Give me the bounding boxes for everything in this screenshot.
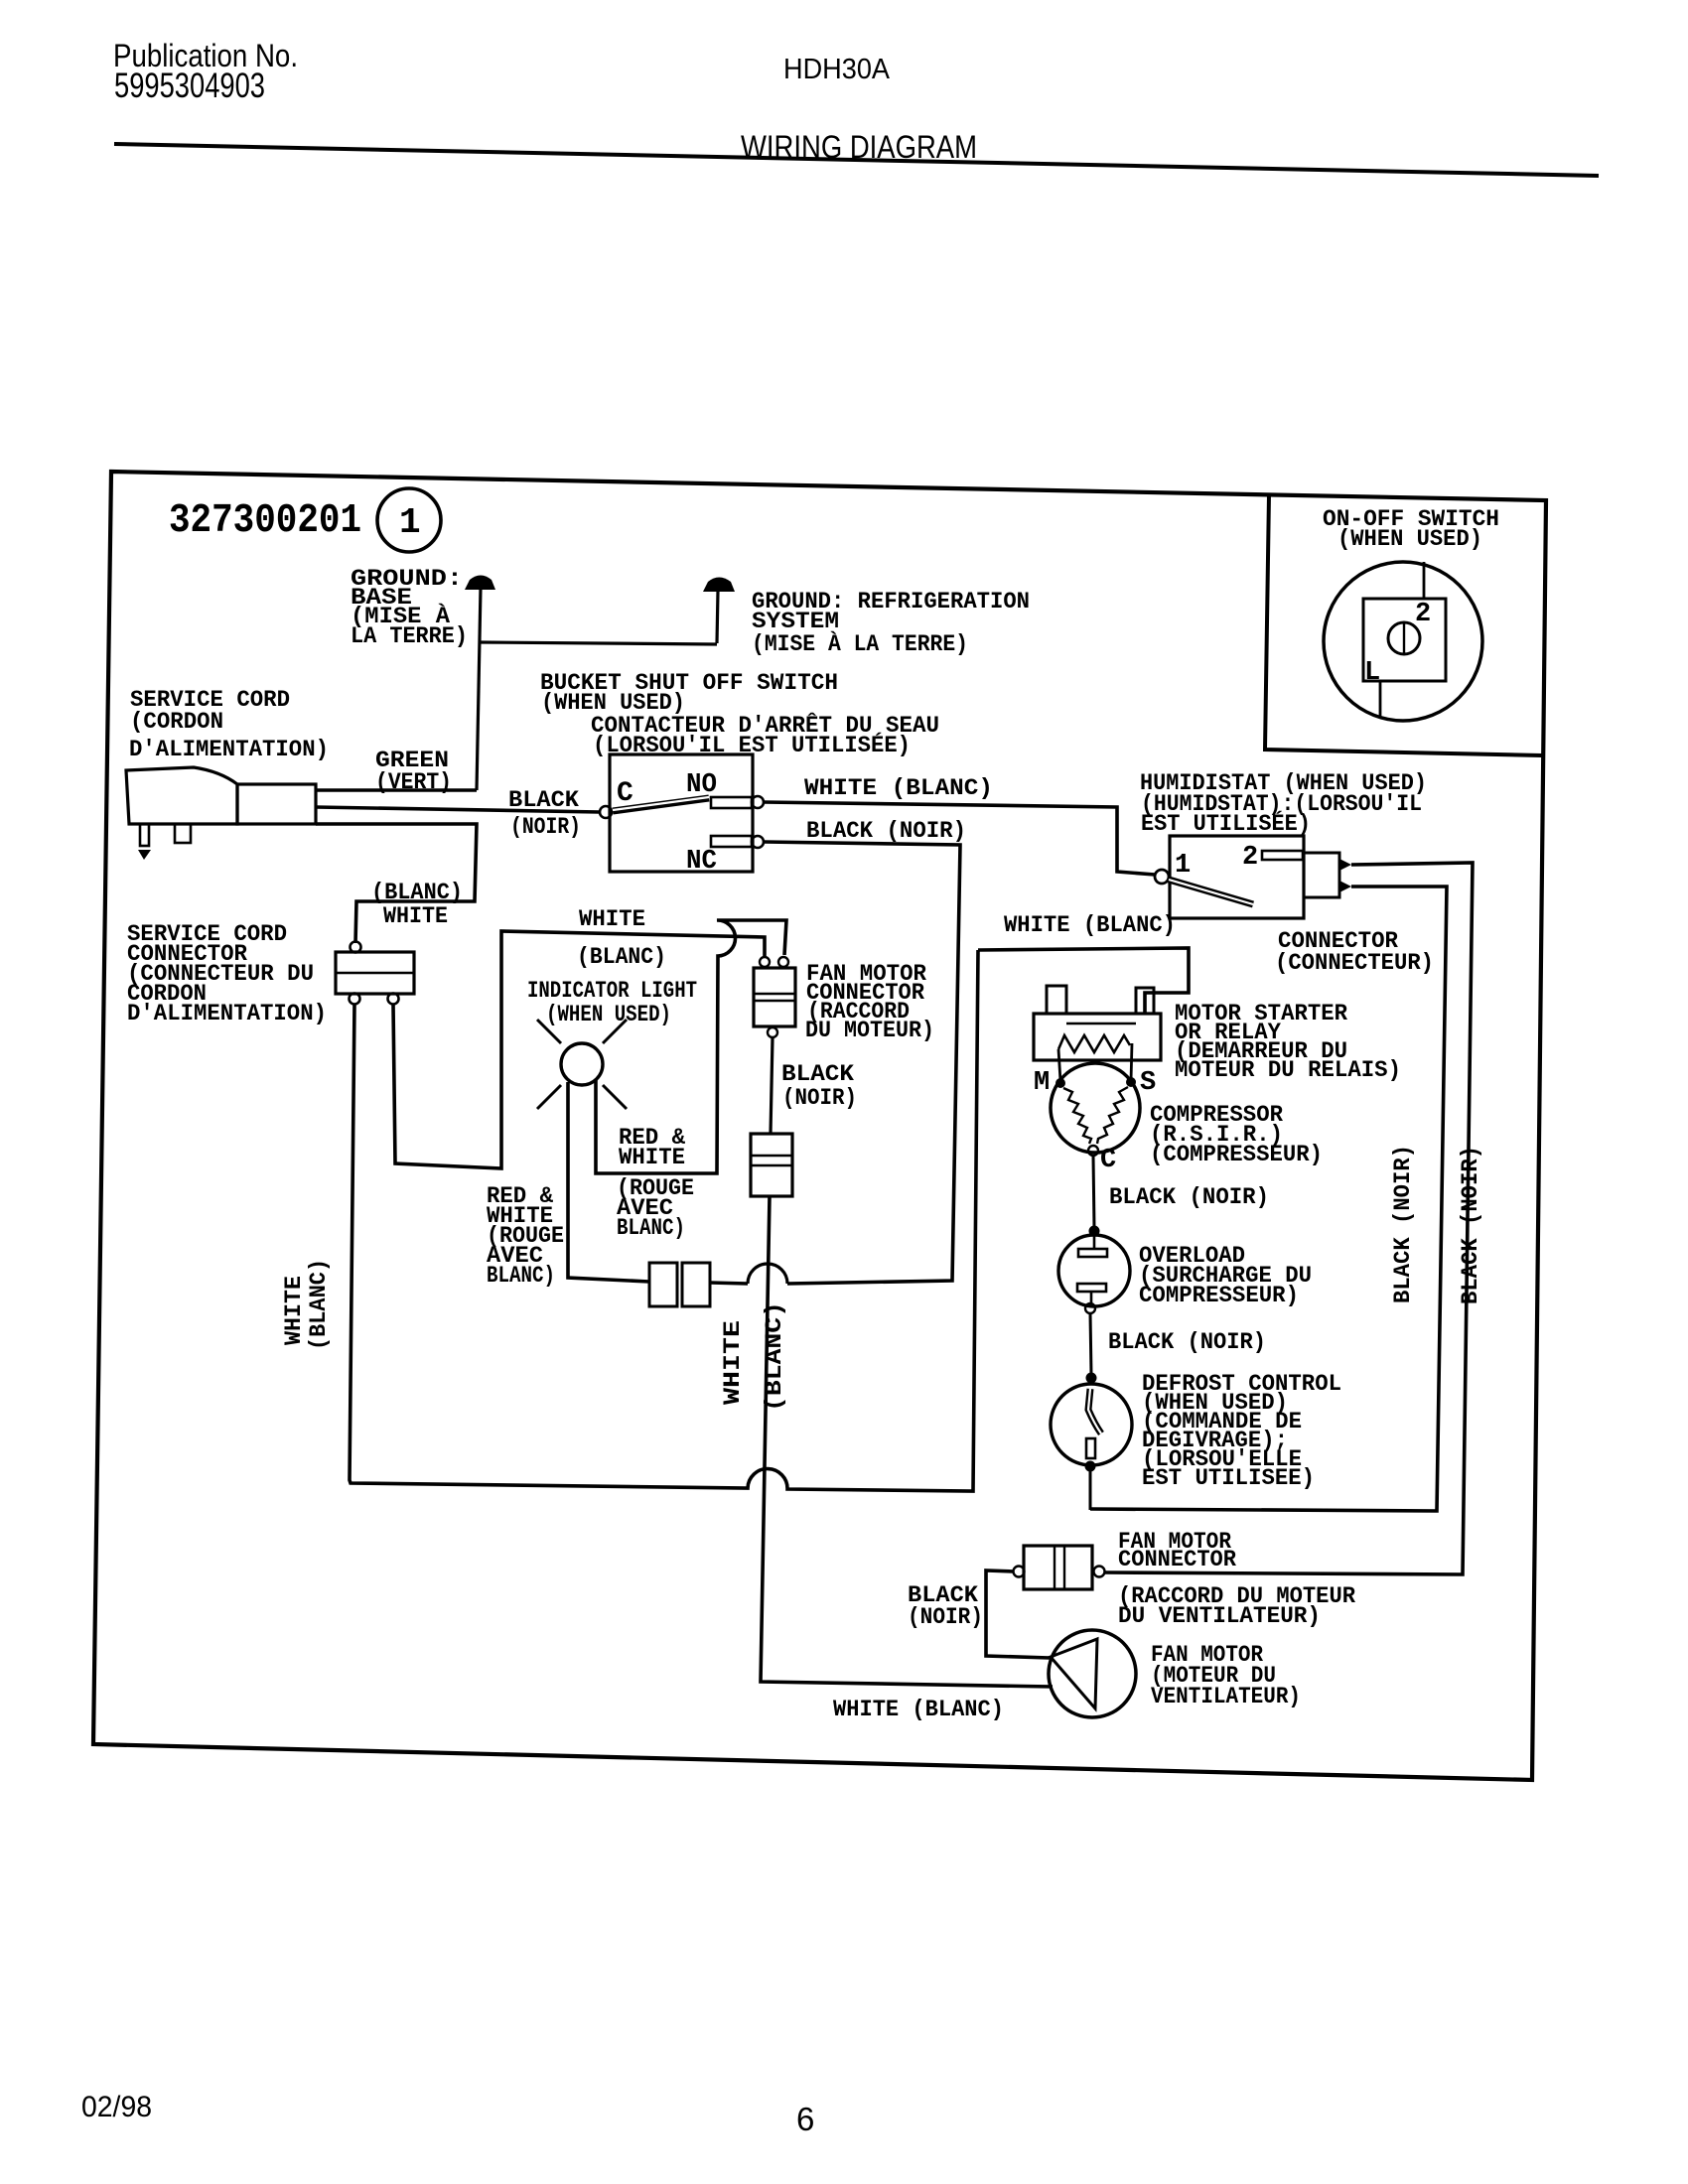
compressor M terminal dot [1055, 1078, 1065, 1088]
label WHITE over wire [579, 906, 645, 933]
vertical label BLACK (NOIR) inner rail [1390, 1145, 1417, 1303]
svg-text:D'ALIMENTATION): D'ALIMENTATION) [127, 1001, 327, 1027]
label INDICATOR LIGHT (WHEN USED) [527, 978, 697, 1028]
service cord connector bottom-right terminal [388, 994, 399, 1005]
svg-text:(NOIR): (NOIR) [782, 1085, 857, 1112]
humidistat terminal 2 blade [1262, 851, 1303, 860]
svg-text:(CONNECTEUR): (CONNECTEUR) [1275, 950, 1434, 977]
vertical label (BLANC) center rail [762, 1301, 788, 1412]
vertical label BLACK (NOIR) outer rail [1458, 1146, 1484, 1304]
overload bottom contact [1077, 1284, 1106, 1303]
on-off switch outer circle [1324, 562, 1482, 721]
svg-text:6: 6 [796, 2101, 814, 2137]
wire white: rail to relay [978, 948, 1189, 1014]
svg-text:BLACK (NOIR): BLACK (NOIR) [806, 818, 966, 845]
text: footer 02/98 [81, 2091, 152, 2123]
svg-text:EST UTILISÉE): EST UTILISÉE) [1141, 810, 1311, 838]
fan motor connector upper body [754, 968, 795, 1026]
indicator light ray SE [603, 1085, 627, 1109]
label DEFROST CONTROL block [1142, 1371, 1341, 1492]
svg-text:(MISE À LA TERRE): (MISE À LA TERRE) [752, 630, 968, 658]
wire overload to defrost [1090, 1313, 1091, 1375]
label GROUND: BASE (MISE A LA TERRE) [351, 566, 468, 650]
svg-text:1: 1 [1175, 851, 1191, 881]
label RED & WHITE right [619, 1125, 686, 1171]
indicator light ray NW [537, 1020, 561, 1043]
wire relay to compressor M [1058, 1049, 1060, 1081]
wire black: NC to indicator connector (right-down-left run) [710, 842, 960, 1284]
wire white: service connector to fan motor connector left terminal [393, 931, 765, 1168]
service cord connector top terminal [351, 942, 361, 953]
compressor S terminal dot [1126, 1077, 1136, 1087]
indicator light ray SW [537, 1085, 561, 1109]
wire on-off pin L [1379, 681, 1382, 719]
fan motor connector upper left terminal [760, 957, 770, 967]
pin label NC [686, 847, 717, 877]
svg-text:EST UTILISEE): EST UTILISEE) [1142, 1465, 1315, 1492]
svg-text:(WHEN USED): (WHEN USED) [1337, 526, 1482, 553]
label BLACK (NOIR) service cord [508, 787, 581, 841]
svg-text:WHITE (BLANC): WHITE (BLANC) [1004, 912, 1176, 939]
humidistat connector pin lower [1339, 881, 1351, 892]
svg-text:(BLANC): (BLANC) [371, 880, 463, 906]
svg-text:INDICATOR LIGHT: INDICATOR LIGHT [527, 978, 697, 1005]
text: page number 6 [796, 2101, 814, 2137]
service cord connector bottom-left terminal [350, 994, 360, 1005]
bucket switch NO terminal [752, 796, 764, 808]
motor starter relay body [1034, 1014, 1161, 1060]
relay left prong [1047, 986, 1066, 1014]
service cord plug ground prong [138, 824, 151, 860]
bucket switch NC terminal [752, 836, 764, 848]
label FAN MOTOR CONNECTOR lower [1118, 1529, 1237, 1573]
svg-text:HDH30A: HDH30A [783, 54, 891, 85]
fan motor connector lower left terminal [1014, 1567, 1025, 1577]
label BLACK (NOIR) overload-defrost [1108, 1329, 1266, 1356]
fan motor circle [1049, 1630, 1136, 1717]
label GREEN (VERT) [375, 748, 452, 796]
svg-text:(NOIR): (NOIR) [510, 814, 581, 841]
svg-text:C: C [617, 778, 633, 809]
indicator light lamp circle [561, 1043, 603, 1085]
humidistat box [1170, 836, 1304, 918]
svg-text:(WHEN USED): (WHEN USED) [546, 1002, 671, 1028]
wire green from plug [316, 788, 477, 792]
overload top contact [1078, 1232, 1107, 1257]
label FAN MOTOR (MOTEUR DU VENTILATEUR) [1151, 1642, 1301, 1710]
svg-text:BLACK (NOIR): BLACK (NOIR) [1458, 1146, 1484, 1304]
label HUMIDISTAT (WHEN USED) (HUMIDSTAT):(LORSOU'IL EST UTILISEE) [1140, 770, 1427, 838]
label OVERLOAD (SURCHARGE DU COMPRESSEUR) [1139, 1243, 1312, 1309]
svg-text:BLACK (NOIR): BLACK (NOIR) [1390, 1145, 1417, 1303]
bucket switch C terminal [600, 806, 612, 818]
svg-text:MOTEUR DU RELAIS): MOTEUR DU RELAIS) [1175, 1057, 1401, 1084]
wire on-off pin 2 [1423, 562, 1426, 599]
on-off switch body square [1363, 599, 1446, 681]
wire compressor C to overload [1093, 1156, 1094, 1228]
text: part number 327300201 [169, 498, 361, 544]
svg-text:COMPRESSEUR): COMPRESSEUR) [1139, 1283, 1299, 1309]
bucket switch NC contact blade [711, 836, 752, 847]
wire black: humidistat pin upper to fan motor connector (right outer rail) [1104, 863, 1473, 1574]
fan motor cone [1051, 1639, 1097, 1708]
label BLACK (NOIR) from NC [806, 818, 966, 845]
wire ground refrigeration stem [717, 591, 718, 643]
defrost control circle [1051, 1384, 1132, 1465]
wire ground base stem / green wire riser [477, 588, 481, 790]
fan motor connector upper right terminal [778, 957, 788, 967]
overload circle [1058, 1235, 1130, 1306]
on-off switch enclosure [1265, 494, 1542, 755]
service cord plug body [126, 767, 316, 824]
label BLACK (NOIR) compressor-overload [1109, 1184, 1269, 1211]
svg-text:WHITE (BLANC): WHITE (BLANC) [833, 1697, 1004, 1723]
svg-text:BLACK (NOIR): BLACK (NOIR) [1109, 1184, 1269, 1211]
indicator light ray NE [603, 1020, 627, 1043]
label BLACK (NOIR) fan lower [908, 1582, 983, 1631]
svg-text:(BLANC): (BLANC) [577, 944, 666, 971]
label (ROUGE AVEC BLANC) right [617, 1175, 694, 1242]
svg-text:(BLANC): (BLANC) [762, 1301, 788, 1412]
svg-text:NC: NC [686, 847, 717, 877]
svg-text:WHITE (BLANC): WHITE (BLANC) [804, 775, 993, 802]
wire white: connector to fan-motor white rail (long left run) [350, 950, 978, 1491]
svg-text:BLANC): BLANC) [617, 1215, 685, 1242]
pin label 2 humidistat [1242, 843, 1258, 873]
vertical label (BLANC) left rail [306, 1259, 333, 1350]
defrost lever [1088, 1389, 1101, 1433]
svg-text:DU MOTEUR): DU MOTEUR) [805, 1018, 934, 1044]
label SERVICE CORD (CORDON D'ALIMENTATION) [129, 687, 329, 763]
label MOTOR STARTER OR RELAY (DEMARREUR DU MOTEUR DU RELAIS) [1175, 1001, 1401, 1084]
main border frame [93, 472, 1546, 1780]
service cord plug flat prong [175, 824, 191, 843]
bucket switch NO contact blade [711, 797, 752, 808]
label CONTACTEUR D'ARRET DU SEAU (LORSOU'IL EST UTILISEE) [591, 712, 939, 759]
label RED & WHITE left [487, 1183, 564, 1290]
svg-text:VENTILATEUR): VENTILATEUR) [1151, 1684, 1301, 1710]
text: Publication No. [113, 38, 298, 73]
wire defrost bottom stem [1089, 1466, 1092, 1510]
svg-text:LA TERRE): LA TERRE) [351, 623, 468, 650]
text: title WIRING DIAGRAM [741, 129, 977, 165]
svg-text:(CORDON: (CORDON [130, 709, 223, 736]
svg-text:C: C [1100, 1146, 1116, 1175]
label (BLANC) under wire [577, 944, 666, 971]
label ON-OFF SWITCH (WHEN USED) [1323, 506, 1499, 553]
pin label M [1034, 1068, 1050, 1098]
label GROUND: REFRIGERATION SYSTEM (MISE A LA TERRE) [752, 589, 1030, 658]
wire black: lower connector to fan motor [986, 1570, 1050, 1658]
wire black from plug to bucket switch C [316, 807, 600, 812]
wire red&white: indicator to fan motor connector right terminal [596, 920, 786, 1173]
humidistat terminal 1 [1155, 870, 1169, 884]
pin label 1 humidistat [1175, 851, 1191, 881]
wire relay to compressor S [1131, 1043, 1132, 1081]
pin label C compressor [1100, 1146, 1116, 1175]
ground: base symbol [465, 576, 495, 591]
pin label C [617, 778, 633, 809]
wire white: NO to humidistat terminal 1 [764, 802, 1155, 875]
header underline [114, 144, 1599, 176]
svg-text:WHITE: WHITE [720, 1320, 747, 1405]
svg-text:327300201: 327300201 [169, 498, 361, 544]
callout circle 1 [377, 488, 441, 552]
svg-text:D'ALIMENTATION): D'ALIMENTATION) [129, 737, 329, 763]
label BLACK (NOIR) fan wire [781, 1061, 857, 1112]
pin label S [1140, 1068, 1156, 1098]
inline connector red&white right half [682, 1263, 710, 1306]
label (BLANC) WHITE service cord [371, 880, 463, 930]
humidistat lever [1169, 880, 1253, 904]
svg-text:BLACK (NOIR): BLACK (NOIR) [1108, 1329, 1266, 1356]
svg-text:WHITE: WHITE [281, 1276, 308, 1345]
svg-text:(NOIR): (NOIR) [908, 1604, 983, 1631]
text: publication number 5995304903 [114, 67, 265, 105]
service cord connector body [336, 952, 414, 994]
svg-text:WHITE: WHITE [619, 1145, 685, 1171]
label COMPRESSOR (R.S.I.R.) (COMPRESSEUR) [1150, 1102, 1323, 1168]
pin label L on-off [1364, 658, 1380, 688]
junction dot defrost top [1086, 1373, 1097, 1384]
wire black: humidistat pin lower to defrost control (right inner rail) [1090, 887, 1447, 1511]
compressor start winding [1097, 1087, 1128, 1144]
label BUCKET SHUT OFF SWITCH (WHEN USED) [540, 670, 838, 717]
compressor circle [1051, 1063, 1140, 1153]
inline connector red&white left half [649, 1263, 677, 1306]
svg-text:L: L [1364, 658, 1380, 688]
svg-text:1: 1 [399, 502, 421, 543]
overload bottom terminal [1085, 1303, 1095, 1313]
wire ground interconnect [481, 642, 717, 644]
humidistat connector body [1304, 853, 1339, 897]
junction dot defrost bottom [1085, 1461, 1096, 1472]
svg-text:BLACK: BLACK [508, 787, 580, 814]
svg-text:WHITE: WHITE [383, 903, 448, 930]
label CONNECTOR (CONNECTEUR) [1275, 928, 1434, 977]
compressor main winding [1063, 1088, 1091, 1144]
fan motor connector lower right terminal [1094, 1567, 1105, 1577]
svg-text:02/98: 02/98 [81, 2091, 152, 2123]
svg-text:BLANC): BLANC) [487, 1263, 555, 1290]
svg-text:DU VENTILATEUR): DU VENTILATEUR) [1118, 1603, 1321, 1630]
label WHITE (BLANC) from NO [804, 775, 993, 802]
vertical label WHITE center rail [720, 1320, 747, 1405]
svg-text:BLACK: BLACK [781, 1061, 855, 1088]
compressor C terminal [1088, 1146, 1098, 1156]
label (RACCORD DU MOTEUR DU VENTILATEUR) [1118, 1583, 1356, 1630]
humidistat connector pin upper [1339, 859, 1351, 871]
on-off switch actuator [1388, 622, 1420, 654]
defrost contact [1086, 1438, 1095, 1458]
bucket shut off switch box [610, 754, 753, 872]
label WHITE (BLANC) humidistat [1004, 912, 1176, 939]
svg-text:(COMPRESSEUR): (COMPRESSEUR) [1150, 1142, 1323, 1168]
text: model HDH30A [783, 54, 891, 85]
svg-text:5995304903: 5995304903 [114, 67, 265, 105]
wire red&white: indicator to inline connector [568, 1082, 649, 1282]
ground: refrigeration system symbol [703, 578, 735, 593]
relay heater zigzag [1058, 1035, 1130, 1052]
label SERVICE CORD CONNECTOR (CONNECTEUR DU CORDON D'ALIMENTATION) [127, 921, 327, 1027]
inline connector white body [751, 1134, 792, 1196]
svg-text:CONNECTOR: CONNECTOR [1118, 1547, 1237, 1573]
svg-text:M: M [1034, 1068, 1050, 1098]
svg-text:WHITE: WHITE [579, 906, 645, 933]
wire white from plug to service cord connector [316, 824, 477, 943]
svg-text:(BLANC): (BLANC) [306, 1259, 333, 1350]
svg-text:2: 2 [1415, 600, 1431, 629]
label WHITE (BLANC) fan motor [833, 1697, 1004, 1723]
label FAN MOTOR CONNECTOR (RACCORD DU MOTEUR) [805, 961, 934, 1044]
svg-text:S: S [1140, 1068, 1156, 1098]
junction dot overload top [1089, 1226, 1100, 1237]
pin label NO [686, 770, 717, 800]
fan motor connector lower body [1024, 1546, 1092, 1589]
wire white: inline connector down to fan motor [761, 1196, 1053, 1687]
svg-text:(VERT): (VERT) [375, 769, 452, 796]
vertical label WHITE left rail [281, 1276, 308, 1345]
relay right prong [1136, 988, 1154, 1014]
pin label 2 on-off [1415, 600, 1431, 629]
bucket switch lever [613, 797, 709, 811]
fan motor connector upper bottom terminal [768, 1027, 777, 1037]
wire black fan connector to inline connector [771, 1037, 773, 1134]
svg-text:2: 2 [1242, 843, 1258, 873]
